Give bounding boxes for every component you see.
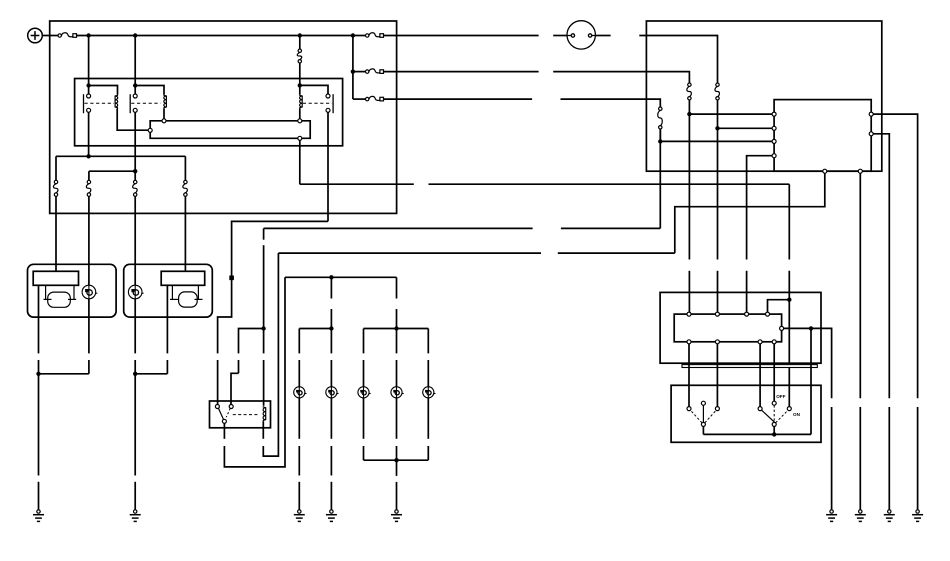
terminal U6	[869, 132, 873, 136]
combination switch connector box	[660, 292, 821, 363]
wire bus riser	[810, 328, 812, 434]
wire R1 switch down	[88, 112, 90, 156]
wire unit upper drop 1	[688, 271, 690, 312]
contact dimmer hi	[715, 407, 719, 411]
wire join right headlight	[135, 373, 167, 375]
wire to fuse F6	[353, 71, 366, 73]
wire bulb 4 mid	[396, 360, 398, 387]
armature R5	[218, 408, 223, 420]
wire fuse F1 to left headlight	[55, 196, 57, 271]
fuse FR2	[715, 83, 720, 100]
lamp tick right b	[195, 298, 203, 300]
junction fuse bus	[351, 69, 355, 73]
wire box output B down	[859, 171, 861, 398]
wire terminal 3 feed	[660, 140, 774, 142]
terminal bus R1 coil	[148, 128, 152, 132]
junction FR2 terminal	[715, 126, 719, 130]
wire fuse F2 to marker bulb left	[88, 196, 90, 285]
wire contact 2 jog	[231, 373, 239, 404]
contact R5 b	[229, 405, 233, 409]
marker bulb right	[128, 285, 143, 299]
ground unit 1	[912, 510, 923, 522]
switch contact strip	[674, 314, 781, 342]
wire R5 coil down	[262, 421, 264, 439]
wire coil return riser	[675, 171, 825, 253]
wire rail drop 2b	[396, 309, 398, 329]
terminal box output A	[823, 169, 827, 173]
wire rail drop 1	[330, 277, 332, 298]
armature R1	[83, 94, 85, 113]
wire bulb 4 down b	[396, 446, 398, 460]
armature R3	[332, 94, 334, 113]
wire R3 switch link	[218, 221, 328, 353]
wire bulb 2 down	[330, 398, 332, 439]
pivot light sw	[772, 422, 776, 426]
wire bulb 1 stem	[298, 482, 300, 510]
junction left headlight ground	[36, 372, 40, 376]
ground left headlight	[33, 510, 44, 522]
wire battery to fusible link	[42, 35, 58, 37]
wire rail1 to fuse F1	[55, 156, 57, 180]
wire F6 output right	[553, 72, 689, 83]
contact R3 lower	[326, 108, 330, 112]
junction bulbs return	[394, 458, 398, 462]
wire bulb 5 upper	[427, 329, 429, 354]
wire F6 output	[384, 71, 539, 73]
fuse FR3	[658, 107, 663, 129]
wire bulb 4 upper	[396, 329, 398, 354]
junction main bus R3	[298, 33, 302, 37]
link R3 coil-armature	[303, 102, 332, 104]
terminal S4t	[766, 312, 770, 316]
bulb B5	[423, 387, 436, 398]
fuse F5	[297, 49, 302, 63]
junction R2 feed	[133, 83, 137, 87]
wire box output B stem	[859, 407, 861, 510]
junction jog	[787, 298, 791, 302]
wire fuse bus vertical	[352, 36, 354, 100]
contact R3 upper	[326, 94, 330, 98]
contact light sw a	[758, 407, 762, 411]
terminal S3b	[758, 340, 762, 344]
wire switch output	[782, 328, 832, 398]
wire FR2 down	[717, 100, 719, 260]
terminal U4	[772, 154, 776, 158]
wire segment to connector C1	[553, 35, 567, 37]
wire dimmer signal b	[561, 227, 660, 229]
junction FR3 terminal	[658, 139, 662, 143]
terminal S3t	[745, 312, 749, 316]
terminal S2t	[715, 312, 719, 316]
rail bulbs feed	[285, 276, 397, 278]
contact R2 upper	[133, 94, 137, 98]
wire coil return a	[278, 252, 541, 254]
wire strip 3 down	[759, 342, 761, 407]
pivot dimmer	[701, 422, 705, 426]
marker bulb left	[82, 285, 97, 299]
wire dimmer signal a	[264, 227, 533, 229]
wire tail signal down 2	[788, 271, 790, 407]
terminal U2	[772, 126, 776, 130]
wire main to relay R1	[88, 36, 90, 95]
wire right return lower	[166, 360, 168, 374]
wire right headlight return	[166, 285, 168, 353]
fuse box (left outer box)	[50, 21, 397, 213]
contact R5 common	[222, 419, 226, 423]
wire bulb 3 down	[363, 398, 365, 439]
lighting control unit	[774, 100, 871, 172]
wire strip 2 down	[716, 342, 718, 407]
link R5 coil-armature	[233, 414, 260, 416]
wire unit output 2 stem	[888, 407, 890, 510]
wire dimmer signal up	[659, 129, 661, 228]
rail fuse row 2	[89, 170, 135, 172]
wire tail signal a	[300, 183, 414, 185]
wire fuse F4 to right headlight	[184, 196, 186, 271]
bulb B1	[294, 387, 307, 398]
wire R2 switch down	[134, 112, 136, 180]
junction R5 branch	[261, 326, 265, 330]
terminal S2b	[715, 340, 719, 344]
ground box B	[855, 510, 866, 522]
relay R3 coil	[300, 95, 303, 109]
wire marker bulb left down	[88, 299, 90, 354]
fusible link main	[58, 33, 77, 38]
headlight right bulb	[179, 292, 198, 307]
terminal box output B	[858, 169, 862, 173]
link R2 coil-armature	[131, 102, 160, 104]
junction main bus R2	[133, 33, 137, 37]
wire coil R5 top	[263, 360, 265, 406]
wire bulb 5 mid	[427, 360, 429, 387]
terminal bus output	[298, 136, 302, 140]
wire FR3 down	[659, 129, 661, 141]
wire pivot dimmer to bus	[702, 426, 704, 434]
rail fuse row 1	[56, 155, 185, 157]
fuse F2	[86, 180, 91, 196]
wire unit upper drop 2	[717, 271, 719, 312]
arm dimmer lo	[690, 410, 702, 423]
terminal U1	[772, 112, 776, 116]
wire rail2 to fuse F2	[88, 171, 90, 180]
wire R1 coil feed	[89, 86, 118, 95]
arm light mid	[773, 405, 775, 422]
fuse F6	[366, 69, 384, 74]
headlight assembly left	[28, 264, 117, 317]
wire fuse F3 to marker bulb right	[134, 196, 136, 285]
wire main to relay R2	[134, 36, 136, 95]
junction FR1 terminal	[687, 112, 691, 116]
arm light solid	[761, 410, 775, 423]
wire F7 output	[384, 98, 533, 100]
lamp neck left b	[73, 285, 75, 299]
fuse FR1	[687, 83, 692, 100]
lamp neck right a	[171, 285, 173, 299]
wire R3 coil to bus bar	[299, 109, 301, 120]
wire terminal 4 feed	[747, 156, 775, 260]
wire contact 2 lower	[238, 360, 240, 373]
wire bulb 3 down b	[363, 446, 365, 460]
junction main bus R1	[86, 33, 90, 37]
fuse F4	[183, 180, 188, 196]
wire bulb 1 upper	[298, 329, 300, 354]
wire right ground stem	[134, 482, 136, 510]
wire switch output stem	[831, 407, 833, 510]
wire right to ground	[134, 374, 136, 476]
wire R1 coil to bus bar	[117, 109, 148, 131]
lamp neck left a	[45, 285, 47, 299]
wire marker bulb right down	[134, 299, 136, 354]
contact R1 lower	[87, 108, 91, 112]
bulb B3	[358, 387, 371, 398]
arm dimmer hi	[705, 410, 716, 423]
junction main bus fuses	[351, 33, 355, 37]
junction bulb rail	[329, 275, 333, 279]
wire to fuse F7	[353, 98, 366, 100]
wire coil R5 feed upper	[263, 228, 265, 239]
contact R5 a	[215, 405, 219, 409]
wire main to fuse F5	[299, 36, 301, 50]
terminal S4b	[772, 340, 776, 344]
wire bulb 1 down	[298, 398, 300, 439]
wire bulb 1 down b	[298, 446, 300, 476]
wire coil return b	[558, 252, 675, 254]
relay R5 coil	[263, 406, 266, 421]
wire marker bulb left down 2	[88, 360, 90, 374]
wire rail drop 2	[396, 277, 398, 298]
headlight switch box	[671, 385, 821, 442]
wire coil R5 feed mid	[263, 245, 265, 353]
wire unit output 1	[871, 114, 917, 398]
headlight assembly right	[124, 264, 213, 317]
junction switch bus	[772, 432, 776, 436]
wire into right box to fuse	[639, 36, 717, 84]
terminal S right	[780, 326, 784, 330]
wire terminal 1 feed	[689, 113, 774, 115]
wire bulb 2 mid	[330, 360, 332, 387]
fuse F3	[133, 180, 138, 196]
contact R5 b link	[226, 408, 230, 417]
wire bulb 1 mid	[298, 360, 300, 387]
rail bulbs return	[364, 459, 429, 461]
headlight right housing	[161, 271, 205, 285]
arm dimmer mid	[702, 405, 704, 422]
wire main bus	[77, 35, 366, 37]
fuse F7	[366, 96, 384, 101]
wire strip 1 down	[688, 342, 690, 407]
contact R1 upper	[87, 94, 91, 98]
wire bulbs return down	[396, 460, 398, 476]
ground bulb 1	[294, 510, 305, 522]
lamp tick left a	[44, 298, 52, 300]
fuse F1	[53, 180, 58, 196]
wire unit output 1 stem	[917, 407, 919, 510]
contact light sw b	[772, 401, 776, 405]
terminal U5	[869, 112, 873, 116]
wire bulb 3 upper	[363, 329, 365, 354]
lamp neck right b	[197, 285, 199, 299]
wire bus output down	[299, 138, 301, 184]
connector C1	[567, 21, 595, 49]
wire bulb 2 down b	[330, 446, 332, 476]
wire bulb 3 mid	[363, 360, 365, 387]
wire strip 4 down	[773, 342, 775, 401]
junction rail1 R1	[86, 154, 90, 158]
wire bulb 2 stem	[330, 482, 332, 510]
terminal bus R3 coil	[298, 119, 302, 123]
junction trio rail	[394, 326, 398, 330]
contact dimmer lo	[687, 407, 691, 411]
svg-text:ON: ON	[793, 412, 801, 417]
svg-text:OFF: OFF	[776, 394, 785, 399]
relay R1 coil	[115, 95, 118, 109]
wire from connector C1	[595, 35, 610, 37]
ground right headlight	[130, 510, 141, 522]
wire bulb 2 upper	[330, 329, 332, 354]
rail bulb pair	[299, 328, 331, 330]
wire branch to contact 2	[239, 329, 264, 354]
wire R5 coil to riser	[263, 253, 278, 456]
wire terminal 2 feed	[718, 127, 775, 129]
relay unit (inner box)	[75, 79, 343, 146]
terminal S1t	[687, 312, 691, 316]
wire R2 coil feed	[135, 86, 164, 95]
link R1 coil-armature	[85, 102, 115, 104]
wire unit output 2	[871, 134, 889, 399]
wire left to ground	[38, 374, 40, 476]
junction switch output	[809, 326, 813, 330]
rail bulb trio	[364, 328, 429, 330]
junction R1 feed	[86, 83, 90, 87]
bulb B4	[391, 387, 404, 398]
wire bulb 5 down b	[427, 446, 429, 460]
wire pivot light to bus	[773, 426, 775, 434]
junction rail2 R2	[133, 169, 137, 173]
wire bulbs return stem	[396, 482, 398, 510]
wire rail1 to fuse F4	[184, 156, 186, 180]
headlight left housing	[33, 271, 78, 285]
junction pair rail	[329, 326, 333, 330]
armature R2	[129, 94, 131, 113]
wire strip terminal 4 jog	[768, 300, 790, 314]
wire F7 output right	[561, 99, 661, 107]
switch ground bus	[703, 433, 811, 435]
wire left ground stem	[38, 482, 40, 510]
right outer box (dash fuse box)	[646, 21, 881, 171]
terminal bus R2 coil	[162, 119, 166, 123]
splice dimmer wire	[229, 276, 234, 281]
wire tail signal down	[788, 184, 790, 259]
wire rail drop 1b	[330, 309, 332, 329]
contact dimmer mid	[701, 401, 705, 405]
ground unit 2	[884, 510, 895, 522]
ground bulbs	[391, 510, 402, 522]
wire bulb 4 down	[396, 398, 398, 439]
wire R3 contact feed	[300, 85, 328, 94]
battery positive terminal	[28, 28, 43, 43]
arm light hi	[776, 410, 788, 423]
wire unit upper drop 3	[746, 271, 748, 312]
wire tail signal b	[429, 183, 790, 185]
wire marker right lower	[134, 360, 136, 374]
bus bar loop	[150, 121, 310, 139]
wire left headlight return	[38, 285, 40, 353]
lamp tick left b	[68, 298, 76, 300]
ground bulb 2	[326, 510, 337, 522]
wire to relay R5 contact 1	[217, 360, 219, 405]
fuse main output	[366, 33, 384, 38]
wire fuse F5 to relay R3	[299, 63, 301, 95]
wire R5 common down	[223, 423, 225, 439]
headlight left bulb	[48, 292, 71, 307]
connector bar	[682, 365, 817, 368]
contact R2 lower	[133, 108, 137, 112]
ground switch	[826, 510, 837, 522]
wire join left headlight	[39, 373, 89, 375]
contact light sw c	[787, 407, 791, 411]
terminal U3	[772, 139, 776, 143]
junction R3 feed	[298, 83, 302, 87]
relay R2 coil	[164, 95, 167, 109]
wire bulb 5 down	[427, 398, 429, 439]
lamp tick right a	[170, 298, 178, 300]
wire left return lower	[38, 360, 40, 374]
junction right headlight ground	[133, 372, 137, 376]
wire R5 common to bulb rail	[224, 277, 285, 467]
wire FR1 down	[688, 100, 690, 260]
terminal S1b	[687, 340, 691, 344]
wire fuse to connector	[384, 35, 539, 37]
dimmer relay R5	[210, 401, 271, 428]
wire R3 switch down	[327, 112, 329, 221]
wire R2 coil to bus bar	[163, 109, 165, 120]
bulb B2	[326, 387, 339, 398]
